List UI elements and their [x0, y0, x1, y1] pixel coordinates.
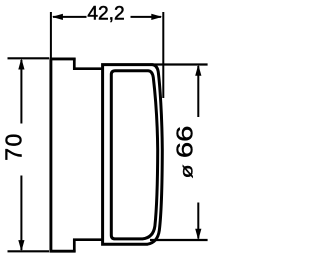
svg-text:42,2: 42,2 — [87, 4, 124, 25]
svg-text:70: 70 — [0, 132, 26, 161]
